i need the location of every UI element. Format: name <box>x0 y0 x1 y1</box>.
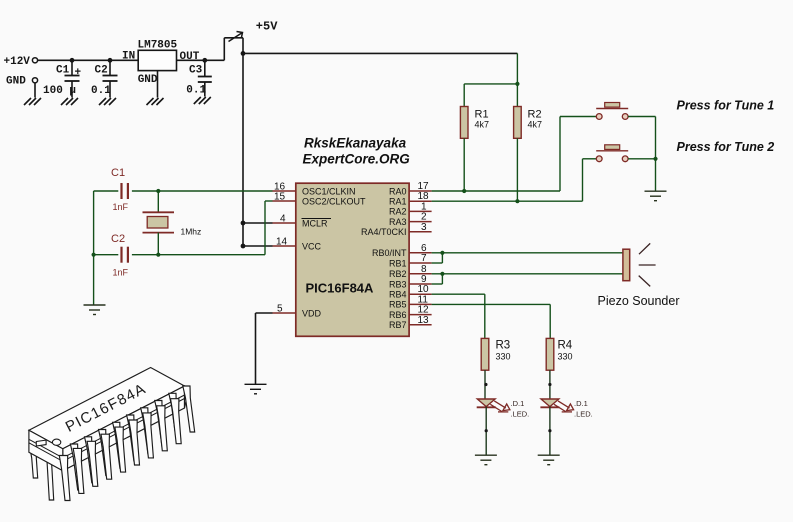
wire RA1 net <box>432 200 583 202</box>
wire RB3 stub <box>432 283 443 285</box>
svg-text:0.1: 0.1 <box>186 85 206 97</box>
junction RB2/RB3 <box>440 272 444 276</box>
svg-text:C2: C2 <box>111 233 125 245</box>
wire RA0 net <box>432 190 560 192</box>
svg-text:RA4/T0CKI: RA4/T0CKI <box>361 227 407 237</box>
svg-text:1Mhz: 1Mhz <box>181 227 202 237</box>
power flag +5V arrow <box>229 32 243 42</box>
svg-text:330: 330 <box>558 352 573 362</box>
wire left rail to C1' left plate <box>94 190 119 192</box>
speaker LS1 piezo plate <box>623 249 630 281</box>
wire RB0 net to piezo <box>432 252 623 254</box>
svg-text:RA3: RA3 <box>389 217 407 227</box>
pin 14 (VCC) <box>273 245 296 247</box>
pin 2 (RA3) <box>409 221 432 223</box>
ground (C3) <box>194 97 211 104</box>
svg-text:ExpertCore.ORG: ExpertCore.ORG <box>303 152 411 167</box>
wire OUT up <box>223 38 225 61</box>
ground (C1) <box>61 98 78 105</box>
svg-text:GND: GND <box>6 76 26 88</box>
svg-text:5: 5 <box>277 304 283 315</box>
wire crystal bottom lead <box>157 233 159 255</box>
ground (buttons) <box>645 191 667 201</box>
svg-text:C1: C1 <box>56 64 70 76</box>
wire to OSC2 pin15 <box>265 200 273 202</box>
capacitor C1 plates <box>122 183 128 199</box>
svg-text:C1: C1 <box>111 167 125 179</box>
DIP body faces <box>29 368 185 449</box>
svg-text:RB0/INT: RB0/INT <box>372 248 407 258</box>
svg-text:1nF: 1nF <box>113 268 129 278</box>
wire VDD pin <box>256 312 273 314</box>
junction C3/OUT <box>202 58 207 63</box>
svg-text:RA0: RA0 <box>389 186 407 196</box>
junction crystal top / OSC1 net <box>156 189 160 193</box>
svg-text:OSC1/CLKIN: OSC1/CLKIN <box>302 186 356 196</box>
wire R4 to LED D2 <box>549 370 551 399</box>
wire +12V rail to C2 <box>109 60 111 75</box>
pin 6 (RB0/INT) <box>409 252 432 254</box>
svg-text:LM7805: LM7805 <box>138 40 178 52</box>
wire button2 right <box>628 158 655 160</box>
svg-text:Press for Tune 1: Press for Tune 1 <box>677 99 775 113</box>
DIP back row legs <box>70 444 82 490</box>
pin 5 (VDD) <box>273 312 296 314</box>
wire regulator GND pin to ground <box>157 71 159 98</box>
pin 3 (RA4/T0CKI) <box>409 231 432 233</box>
crystal X1 1Mhz <box>143 212 175 232</box>
pin 10 (RB4) <box>409 293 432 295</box>
switch SW1 (Tune 1) <box>596 103 628 120</box>
DIP notch and pin1 dot <box>36 440 46 446</box>
wire RB5 net <box>432 303 551 305</box>
junction pin dot D1/gnd <box>485 429 488 432</box>
junction rail/C2 <box>92 253 96 257</box>
junction pin dot R3/D1 <box>484 383 487 386</box>
wire GND terminal to ground <box>34 83 36 98</box>
ground (LED D2) <box>538 455 560 465</box>
wire R3 to LED D1 <box>484 370 486 399</box>
wire C1 to ground <box>71 81 73 98</box>
wire +5V vertical down to VCC <box>242 38 244 246</box>
pin 12 (RB6) <box>409 314 432 316</box>
wire LED D2 to ground <box>549 407 551 456</box>
wire R1/R2 top branch <box>464 83 517 85</box>
junction +5V rail <box>241 51 246 56</box>
wire buttons to ground <box>655 117 657 192</box>
junction R2/RA1 <box>515 199 519 203</box>
DIP back legs under left end <box>30 448 38 478</box>
wire regulator OUT <box>177 59 225 61</box>
svg-text:RA1: RA1 <box>389 197 407 207</box>
junction VCC tap <box>241 244 246 249</box>
svg-text:R4: R4 <box>558 340 573 352</box>
junction RB0/RB1 <box>440 251 444 255</box>
svg-text:RB3: RB3 <box>389 279 407 289</box>
resistor R4 body <box>546 338 554 370</box>
wire +5V horizontal rail <box>243 52 517 54</box>
pin 11 (RB5) <box>409 303 432 305</box>
wire RB1 to RB0 <box>441 253 443 263</box>
wire RB1 stub <box>432 262 443 264</box>
ground (oscillator rail) <box>84 305 106 315</box>
pin 18 (RA1) <box>409 200 432 202</box>
svg-text:OSC2/CLKOUT: OSC2/CLKOUT <box>302 196 366 206</box>
ground (LED D1) <box>475 455 497 465</box>
wire OUT rail to C3 <box>204 60 206 76</box>
svg-text:VCC: VCC <box>302 241 322 251</box>
wire button1 right <box>628 116 655 118</box>
junction crystal bottom / OSC2 net <box>156 253 160 257</box>
pin 15 (OSC2/CLKOUT) <box>273 200 296 202</box>
svg-text:PIC16F84A: PIC16F84A <box>306 281 375 296</box>
svg-text:OUT: OUT <box>180 51 200 63</box>
junction button2 right/gnd net <box>653 157 657 161</box>
capacitor C3 0.1 (plates) <box>198 77 212 83</box>
switch SW2 (Tune 2) <box>596 145 628 162</box>
junction R1/RA0 <box>462 189 466 193</box>
wire +12V rail to C1 <box>71 60 73 75</box>
wire C2 to ground <box>109 81 111 98</box>
svg-text:14: 14 <box>276 237 288 248</box>
pin 4 (MCLR) <box>273 222 296 224</box>
wire +5V to MCLR pin <box>243 222 273 224</box>
resistor R1 body <box>460 107 468 139</box>
svg-text:R3: R3 <box>496 340 511 352</box>
wire +12V rail to regulator IN <box>38 59 138 61</box>
svg-text:330: 330 <box>496 352 511 362</box>
wire R1 bottom to RA0 net <box>463 138 465 191</box>
svg-text:.D.1: .D.1 <box>574 399 588 408</box>
capacitor C2 plates <box>122 247 128 263</box>
ground (C2) <box>99 98 116 105</box>
op-amp U1 PIC16F84A body <box>296 183 409 336</box>
wire to +5V node <box>224 37 243 39</box>
wire LED D1 to ground <box>485 407 487 456</box>
svg-text:RB2: RB2 <box>389 269 407 279</box>
svg-text:IN: IN <box>122 50 135 62</box>
LED D2 (right) <box>540 399 573 412</box>
pin 7 (RB1) <box>409 262 432 264</box>
svg-text:RA2: RA2 <box>389 207 407 217</box>
junction C2/+12V rail <box>108 58 113 63</box>
pin 13 (RB7) <box>409 324 432 326</box>
resistor R2 body <box>514 107 522 139</box>
pin 1 (RA2) <box>409 210 432 212</box>
svg-text:.LED.: .LED. <box>511 410 530 419</box>
svg-text:C3: C3 <box>189 64 203 76</box>
svg-text:4: 4 <box>280 214 286 225</box>
ground (LM7805) <box>147 98 164 105</box>
capacitor C1 100u (plates) <box>65 76 80 82</box>
ground (VDD) <box>245 384 267 394</box>
pin 16 (OSC1/CLKIN) <box>273 190 296 192</box>
svg-text:RB4: RB4 <box>389 290 407 300</box>
junction MCLR tap <box>241 221 246 226</box>
wire R1 top lead <box>463 84 465 107</box>
svg-text:0.1: 0.1 <box>91 85 111 97</box>
wire C1 to OSC1 pin16 <box>132 190 273 192</box>
wire R2 bottom to RA1 net <box>516 138 518 201</box>
wire RB5 down to R4 <box>549 304 551 338</box>
svg-text:15: 15 <box>274 192 286 203</box>
speaker LS1 sound rays <box>639 243 656 286</box>
svg-text:MCLR: MCLR <box>302 218 328 228</box>
capacitor C2 0.1 (plates) <box>103 76 118 82</box>
svg-text:.LED.: .LED. <box>574 410 593 419</box>
wire C2 to OSC2 riser <box>132 254 265 256</box>
svg-text:+12V: +12V <box>4 56 31 68</box>
wire R2 top lead <box>516 84 518 107</box>
svg-text:Press for Tune 2: Press for Tune 2 <box>677 140 775 154</box>
wire left rail vertical <box>93 191 95 305</box>
ground (input GND) <box>24 98 41 105</box>
svg-text:.D.1: .D.1 <box>511 399 525 408</box>
svg-text:3: 3 <box>421 222 427 233</box>
junction pin dot R4/D2 <box>548 383 551 386</box>
wire to button1 left <box>560 116 596 118</box>
svg-text:+5V: +5V <box>256 20 278 34</box>
svg-text:4k7: 4k7 <box>528 120 543 130</box>
resistor R3 body <box>481 338 489 370</box>
wire OSC2 riser <box>264 201 266 255</box>
svg-text:100 µ: 100 µ <box>43 85 76 97</box>
wire rail to C2' left plate <box>94 254 119 256</box>
svg-text:7: 7 <box>421 253 427 264</box>
wire RB4 net <box>432 293 485 295</box>
wire RA0 riser to button1 <box>559 117 561 192</box>
svg-text:4k7: 4k7 <box>475 120 490 130</box>
svg-text:VDD: VDD <box>302 308 322 318</box>
svg-text:RB1: RB1 <box>389 258 407 268</box>
svg-text:RB7: RB7 <box>389 320 407 330</box>
svg-text:C2: C2 <box>95 64 108 76</box>
pin 9 (RB3) <box>409 283 432 285</box>
wire to button2 left <box>583 158 597 160</box>
junction pin dot D2/gnd <box>548 429 551 432</box>
wire RB2 net to piezo <box>432 273 623 275</box>
wire crystal top lead <box>157 191 159 212</box>
svg-text:GND: GND <box>138 74 158 86</box>
svg-text:+: + <box>75 67 82 79</box>
LED D1 (left) <box>477 399 510 412</box>
wire +5V to VCC pin <box>243 245 273 247</box>
junction C1/+12V rail <box>70 58 75 63</box>
svg-text:RkskEkanayaka: RkskEkanayaka <box>304 136 407 151</box>
wire +5V rail down to R divider <box>516 53 518 84</box>
wire RB4 down to R3 <box>484 294 486 338</box>
svg-text:RB6: RB6 <box>389 310 407 320</box>
DIP front row legs <box>59 456 70 501</box>
wire RA1 riser to button2 <box>582 159 584 201</box>
pin 8 (RB2) <box>409 273 432 275</box>
crystal X1 body <box>147 217 168 229</box>
wire VDD down to ground <box>255 313 257 384</box>
svg-text:1nF: 1nF <box>113 202 129 212</box>
svg-text:RB5: RB5 <box>389 300 407 310</box>
wire RB3 to RB2 <box>441 274 443 284</box>
junction R2 top <box>515 82 519 86</box>
pin 17 (RA0) <box>409 190 432 192</box>
svg-text:13: 13 <box>418 315 430 326</box>
svg-text:Piezo Sounder: Piezo Sounder <box>598 294 680 308</box>
regulator U2 LM7805 body <box>138 50 176 70</box>
wire C3 to ground <box>204 82 206 97</box>
